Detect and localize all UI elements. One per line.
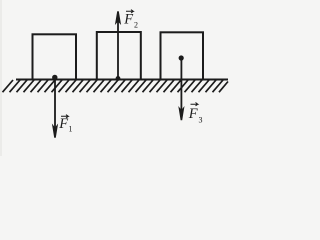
- label F3 vector arrow: [191, 103, 198, 106]
- force arrow F1 head: [52, 124, 58, 138]
- application point dot 3: [179, 55, 184, 60]
- label F2 vector arrow: [126, 10, 133, 13]
- force arrow F2 head: [115, 11, 121, 25]
- svg-text:F: F: [123, 12, 133, 28]
- force arrow F3 shaft: [180, 58, 182, 114]
- svg-text:3: 3: [199, 116, 203, 125]
- force arrow F3 head: [178, 106, 184, 120]
- svg-text:F: F: [188, 106, 198, 122]
- block B3 (right box): [161, 32, 204, 79]
- svg-text:2: 2: [134, 21, 138, 30]
- application point dot 2: [116, 76, 121, 81]
- force arrow F1 shaft: [54, 80, 56, 132]
- label F1 vector arrow: [61, 115, 68, 118]
- svg-text:1: 1: [69, 125, 73, 134]
- ground hatching: [3, 80, 229, 92]
- block B2 (middle box): [97, 32, 141, 80]
- faint scan edge at left: [0, 0, 2, 156]
- block B1 (left box): [33, 34, 77, 79]
- svg-text:F: F: [58, 116, 68, 132]
- application point dot 1: [52, 75, 57, 80]
- force arrow F2 shaft: [117, 19, 119, 80]
- ground surface line: [16, 79, 228, 81]
